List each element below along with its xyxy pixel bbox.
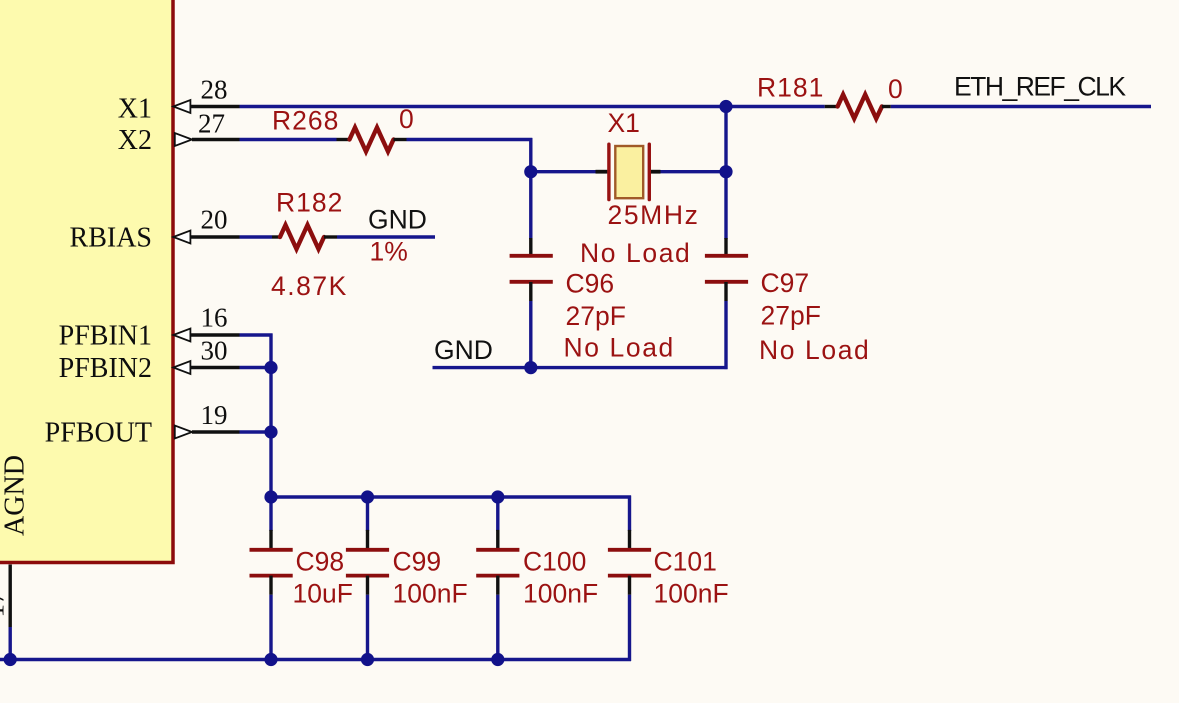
wire R182 to GND net label — [337, 235, 435, 238]
junction C100 bottom — [491, 653, 504, 666]
resistor R268 — [272, 104, 414, 152]
pin 20 (RBIAS) — [173, 205, 239, 244]
svg-text:R268: R268 — [272, 106, 339, 136]
svg-text:30: 30 — [201, 336, 228, 366]
pin 28 (X1) — [173, 75, 239, 114]
junction C100 top — [491, 490, 504, 503]
svg-text:16: 16 — [201, 303, 228, 333]
wire pin16 to corner — [240, 333, 273, 336]
svg-text:ETH_REF_CLK: ETH_REF_CLK — [954, 72, 1126, 102]
bottom bus wire — [0, 658, 631, 661]
svg-text:C101: C101 — [654, 547, 717, 577]
wire C100 to bottom bus — [496, 595, 499, 660]
svg-text:17: 17 — [0, 591, 10, 618]
wire C99 to bottom bus — [366, 595, 369, 660]
capacitor C98 — [250, 530, 353, 609]
resistor R181 — [757, 73, 903, 119]
svg-text:C98: C98 — [296, 547, 345, 577]
svg-text:No Load: No Load — [759, 335, 870, 365]
capacitor C100 — [476, 497, 598, 609]
svg-text:X1: X1 — [118, 94, 152, 125]
svg-text:RBIAS: RBIAS — [70, 223, 152, 254]
wire R268 to corner — [407, 138, 533, 141]
junction C98 bottom — [264, 653, 277, 666]
svg-text:100nF: 100nF — [393, 579, 468, 609]
svg-text:GND: GND — [368, 205, 427, 235]
wire pin28 to R181 — [240, 105, 825, 108]
capacitor C97 — [705, 238, 870, 365]
wire crystal left — [531, 170, 596, 173]
svg-text:GND: GND — [434, 335, 493, 365]
svg-text:1%: 1% — [370, 237, 408, 267]
junction crystal left node — [524, 165, 537, 178]
svg-text:No Load: No Load — [564, 333, 675, 363]
pin 27 (X2) — [175, 109, 240, 147]
top bus wire — [271, 495, 631, 498]
wire C98 to bottom bus — [269, 595, 272, 660]
junction trunk at top bus — [264, 490, 277, 503]
svg-text:100nF: 100nF — [654, 579, 729, 609]
svg-text:20: 20 — [201, 205, 228, 235]
pin 17 (bottom edge, AGND) — [0, 565, 10, 628]
svg-text:R181: R181 — [757, 73, 824, 103]
junction C99 top — [361, 490, 374, 503]
junction pin30 node — [264, 361, 277, 374]
svg-text:28: 28 — [201, 75, 228, 105]
wire pin27 to R268 — [240, 138, 337, 141]
svg-text:PFBIN1: PFBIN1 — [59, 321, 152, 352]
svg-text:C96: C96 — [566, 269, 615, 299]
svg-text:AGND: AGND — [0, 455, 31, 536]
svg-text:No Load: No Load — [580, 238, 691, 268]
svg-text:0: 0 — [399, 104, 414, 134]
wire R181 to ETH_REF_CLK end — [891, 105, 1151, 108]
wire C101 to bottom bus corner — [628, 595, 631, 661]
junction top node at R181 branch — [719, 100, 732, 113]
svg-text:19: 19 — [201, 400, 228, 430]
svg-text:PFBOUT: PFBOUT — [45, 418, 152, 449]
wire crystal right — [661, 170, 727, 173]
junction pin19 node — [264, 425, 277, 438]
wire pin19 stub — [240, 430, 272, 433]
wire corner down to crystal node — [529, 138, 532, 239]
capacitor C96 — [510, 238, 675, 363]
svg-text:4.87K: 4.87K — [271, 271, 348, 301]
svg-text:R182: R182 — [276, 188, 343, 218]
capacitor C99 — [346, 497, 468, 609]
svg-text:100nF: 100nF — [523, 579, 598, 609]
wire vertical trunk pin16 down to C98 — [269, 334, 272, 532]
svg-text:0: 0 — [888, 74, 903, 104]
IC U? body (partially visible) — [0, 0, 173, 563]
resistor R182 — [271, 188, 408, 302]
svg-text:27: 27 — [198, 109, 225, 139]
svg-text:X1: X1 — [608, 108, 640, 138]
capacitor C101 — [608, 496, 729, 609]
wire bottom pin to bus — [8, 627, 11, 660]
svg-text:27pF: 27pF — [761, 301, 821, 331]
svg-text:PFBIN2: PFBIN2 — [59, 353, 152, 384]
junction C96 at GND bus — [524, 361, 537, 374]
GND bus wire — [433, 366, 728, 369]
svg-text:C99: C99 — [393, 547, 442, 577]
pin 19 (PFBOUT) — [175, 400, 240, 439]
svg-text:C100: C100 — [523, 547, 586, 577]
wire pin30 stub — [240, 366, 272, 369]
crystal X1 — [580, 108, 699, 268]
wire pin20 to R182 — [240, 235, 273, 238]
pin 16 (PFBIN1) — [173, 303, 239, 342]
junction crystal right node — [719, 165, 732, 178]
junction bottom pin at bus — [4, 653, 17, 666]
svg-text:10uF: 10uF — [293, 579, 353, 609]
svg-text:X2: X2 — [118, 125, 152, 156]
svg-text:27pF: 27pF — [566, 301, 626, 331]
pin 30 (PFBIN2) — [173, 336, 239, 375]
wire C97 to GND bus corner — [724, 301, 727, 369]
svg-text:C97: C97 — [761, 268, 810, 298]
wire top node down to crystal right node — [724, 107, 727, 240]
junction C99 bottom — [361, 653, 374, 666]
wire C96 to GND bus — [529, 301, 532, 368]
svg-text:25MHz: 25MHz — [608, 200, 700, 230]
